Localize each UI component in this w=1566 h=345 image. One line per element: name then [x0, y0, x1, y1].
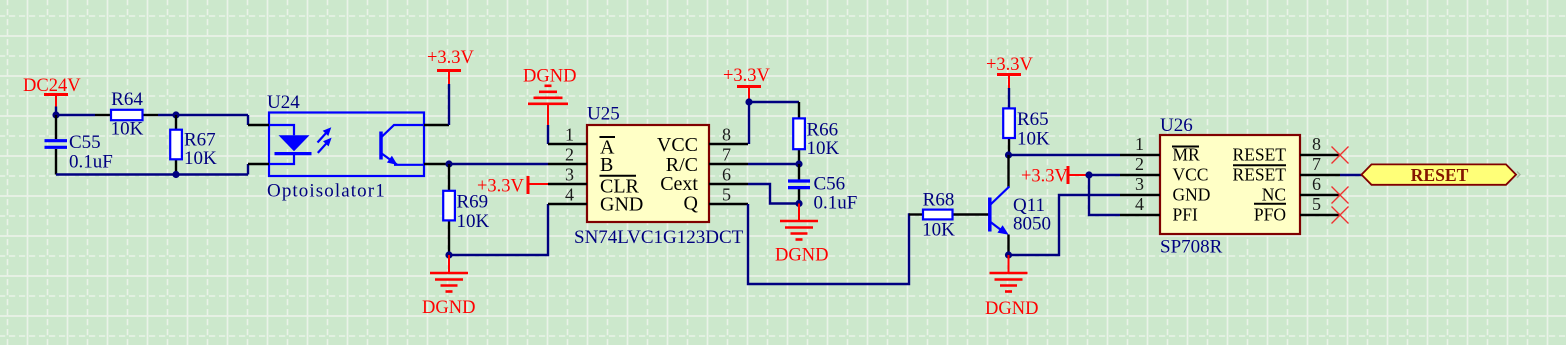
svg-text:DGND: DGND: [775, 246, 828, 266]
wire bottom return row: [56, 164, 248, 175]
wire +3.3V node to pin4: [1089, 175, 1120, 215]
wire DGND to U25 pin1: [547, 125, 549, 144]
svg-text:RESET: RESET: [1411, 165, 1469, 185]
resistor R64: [95, 110, 158, 120]
junction node DC24V: [52, 111, 59, 118]
pin 5 (U26 PFO): [1300, 194, 1340, 215]
wire emitter node to U26 pin3: [1009, 195, 1121, 255]
svg-text:U24: U24: [267, 92, 300, 113]
transistor Q11: [990, 155, 1010, 255]
resistor R69: [443, 164, 455, 255]
wire pin6 to C56 bottom: [748, 184, 799, 204]
svg-text:+3.3V: +3.3V: [477, 177, 525, 197]
svg-text:6: 6: [1312, 174, 1321, 194]
junction node R66/C56/pin7: [795, 160, 802, 167]
svg-text:7: 7: [1312, 154, 1321, 174]
svg-text:4: 4: [565, 185, 574, 205]
svg-text:3: 3: [1135, 174, 1144, 194]
junction node +3.3V/VCC/PFI: [1085, 171, 1092, 178]
svg-text:+3.3V: +3.3V: [723, 66, 771, 86]
svg-text:0.1uF: 0.1uF: [814, 193, 858, 214]
pin 1 (U26 MR): [1120, 134, 1160, 155]
junction node R69 bottom: [445, 251, 452, 258]
no-connect X pin6: [1332, 187, 1349, 204]
resistor R67: [170, 115, 182, 175]
svg-text:5: 5: [1312, 194, 1321, 214]
pin 7 (U26 RESET-bar): [1300, 154, 1340, 175]
svg-text:SN74LVC1G123DCT: SN74LVC1G123DCT: [574, 227, 744, 248]
svg-text:RESET: RESET: [1233, 165, 1287, 185]
wire pin7 to RESET port: [1340, 174, 1362, 176]
svg-text:6: 6: [722, 165, 731, 185]
svg-text:Optoisolator1: Optoisolator1: [267, 181, 386, 202]
wire emitter to U25 pin2: [449, 163, 548, 165]
svg-text:4: 4: [1135, 194, 1144, 214]
wire +3.3V to collector: [448, 84, 450, 125]
svg-text:SP708R: SP708R: [1160, 237, 1223, 258]
pin 6 (U26 NC): [1300, 174, 1340, 195]
power +3.3V (U25 CLR pin3): [477, 176, 548, 197]
svg-text:RESET: RESET: [1233, 145, 1287, 165]
pin 8 (U25 VCC): [709, 125, 748, 145]
svg-text:B: B: [600, 154, 613, 176]
svg-text:C55: C55: [69, 132, 101, 153]
svg-text:NC: NC: [1262, 185, 1286, 205]
svg-text:10K: 10K: [184, 148, 217, 169]
junction node R67 bottom: [172, 171, 179, 178]
svg-text:3: 3: [565, 165, 574, 185]
pin 6 (U25 Cext): [709, 165, 748, 185]
svg-text:VCC: VCC: [657, 134, 698, 156]
pin 2 (U26 VCC): [1120, 154, 1160, 175]
svg-text:0.1uF: 0.1uF: [69, 152, 113, 173]
svg-text:8: 8: [1312, 134, 1321, 154]
svg-text:DGND: DGND: [523, 67, 576, 87]
pin 5 (U25 Q): [709, 185, 748, 205]
svg-text:DGND: DGND: [985, 299, 1038, 319]
svg-text:1: 1: [565, 125, 574, 145]
svg-text:U26: U26: [1160, 115, 1193, 136]
optoisolator U24: [248, 113, 449, 177]
pin 4 (U25 GND): [548, 185, 587, 205]
svg-text:R65: R65: [1017, 109, 1049, 130]
svg-text:R68: R68: [923, 190, 955, 211]
svg-text:5: 5: [722, 185, 731, 205]
wire node to U26 pin1: [1009, 154, 1121, 156]
op-amp U26 body: [1160, 135, 1300, 234]
svg-text:PFO: PFO: [1254, 205, 1286, 225]
capacitor C55: [45, 115, 68, 175]
no-connect X pin5: [1332, 207, 1349, 224]
power +3.3V (opto collector): [427, 48, 475, 84]
junction node +3.3V/R66/pin8: [745, 98, 752, 105]
pin 7 (U25 R/C): [709, 145, 748, 165]
pin 8 (U26 RESET): [1300, 134, 1340, 155]
junction node R65/collector/MR: [1005, 151, 1012, 158]
junction node emitter/GND: [1005, 251, 1012, 258]
svg-text:10K: 10K: [111, 119, 144, 140]
ground DGND (below C56): [775, 204, 828, 266]
svg-text:8: 8: [722, 125, 731, 145]
pin names U26 left: [1172, 145, 1210, 225]
svg-text:7: 7: [722, 145, 731, 165]
wire +3.3V to R65: [1008, 88, 1010, 108]
resistor R68: [909, 210, 989, 220]
junction node C56 bottom: [795, 200, 802, 207]
pin 2 (U25 B): [548, 145, 587, 165]
svg-text:2: 2: [565, 145, 574, 165]
svg-text:10K: 10K: [457, 211, 490, 232]
svg-text:VCC: VCC: [1173, 165, 1209, 185]
svg-text:+3.3V: +3.3V: [986, 55, 1034, 75]
ground DGND (below R69): [422, 255, 475, 318]
svg-text:10K: 10K: [922, 219, 955, 240]
port RESET: [1362, 164, 1521, 184]
pin names U25 right: [657, 134, 699, 215]
svg-text:10K: 10K: [807, 138, 840, 159]
power port DC24V: [23, 76, 81, 115]
wire pin5 (Q) to R68: [748, 204, 910, 284]
pin names U26 right: [1233, 145, 1287, 225]
pin names U25 left: [600, 137, 644, 216]
svg-text:GND: GND: [600, 193, 643, 215]
pin 4 (U26 PFI): [1120, 194, 1160, 215]
op-amp U25 body: [587, 125, 709, 222]
resistor R65: [1003, 108, 1015, 155]
ground DGND (below Q11): [985, 255, 1038, 319]
wire pin7 to R66/C56: [748, 163, 799, 165]
svg-text:R64: R64: [111, 89, 143, 110]
no-connect X pin8: [1332, 147, 1349, 164]
wire net DC24V top row: [56, 115, 248, 125]
power +3.3V (U26 VCC/PFI): [1021, 166, 1089, 187]
resistor R66: [793, 102, 805, 164]
junction node emitter/R69: [445, 160, 452, 167]
pin 3 (U25 CLR): [548, 165, 587, 185]
pin 1 (U25 A): [548, 125, 587, 145]
svg-text:Q: Q: [684, 193, 699, 215]
svg-text:+3.3V: +3.3V: [427, 48, 475, 68]
svg-text:1: 1: [1135, 134, 1144, 154]
wire +3.3V node to pin2: [1089, 174, 1120, 176]
svg-text:10K: 10K: [1017, 129, 1050, 150]
svg-text:GND: GND: [1173, 185, 1211, 205]
svg-text:C56: C56: [814, 174, 846, 195]
wire +3.3V node to pin8: [748, 102, 750, 144]
ground DGND (above U25 pin1): [523, 67, 576, 126]
pin 3 (U26 GND): [1120, 174, 1160, 195]
wire R69 bottom to U25 pin4: [449, 204, 548, 255]
capacitor C56: [788, 164, 810, 204]
svg-text:2: 2: [1135, 154, 1144, 174]
power +3.3V (R66 top): [723, 66, 771, 102]
svg-text:PFI: PFI: [1173, 205, 1198, 225]
junction node R64/R67: [172, 111, 179, 118]
svg-text:U25: U25: [587, 104, 620, 125]
power +3.3V (R65 top): [986, 55, 1034, 88]
wire +3.3V node to R66: [749, 101, 799, 103]
svg-text:DGND: DGND: [422, 298, 475, 318]
svg-text:8050: 8050: [1013, 214, 1051, 235]
svg-text:+3.3V: +3.3V: [1021, 167, 1069, 187]
